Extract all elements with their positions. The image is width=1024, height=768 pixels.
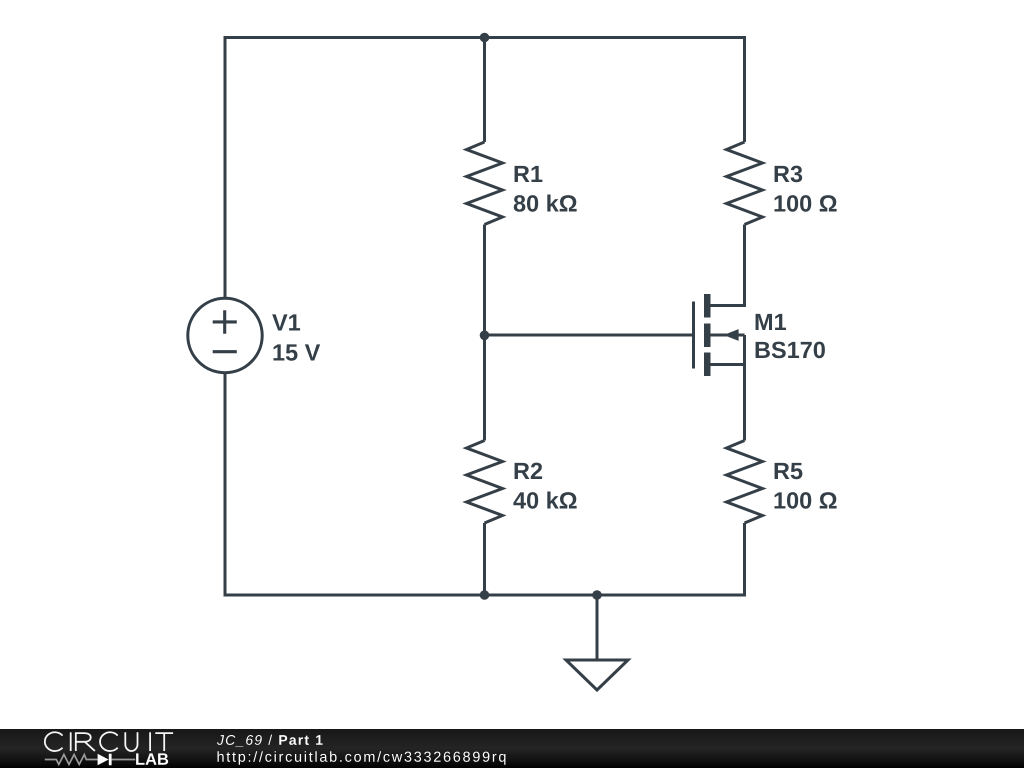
transistor M1 channel body segment bbox=[704, 324, 711, 348]
wire right lower (R5 to bottom rail) bbox=[743, 523, 746, 597]
logo letter U bbox=[125, 732, 137, 751]
footer title JC_69 bbox=[217, 735, 262, 746]
logo letter I bbox=[70, 732, 72, 751]
resistor R1 bbox=[467, 142, 503, 225]
label R5 name bbox=[775, 463, 803, 479]
ground stem bbox=[596, 595, 599, 660]
wire left lower (V1 minus to bottom rail) bbox=[224, 372, 227, 597]
label R1 value 80 kOhm bbox=[514, 194, 577, 211]
transistor M1 channel drain segment bbox=[704, 294, 711, 318]
logo letter T bbox=[155, 733, 173, 751]
label V1 name bbox=[272, 314, 300, 330]
voltage source V1 circle bbox=[188, 298, 262, 372]
logo letter R bbox=[76, 733, 95, 751]
logo letter I second bbox=[149, 732, 151, 751]
resistor R5 bbox=[727, 441, 763, 524]
logo letter C second bbox=[100, 732, 118, 751]
label V1 value 15 V bbox=[273, 344, 320, 360]
logo letter C bbox=[45, 732, 63, 751]
wire drain (R3 to M1 drain) bbox=[709, 225, 745, 306]
footer title slash bbox=[268, 735, 272, 745]
wire source (M1 body and source to R5) bbox=[710, 335, 745, 441]
wire gate (node to M1 gate) bbox=[485, 334, 694, 337]
ground triangle bbox=[566, 660, 628, 690]
node dot bottom rail ground bbox=[592, 590, 602, 600]
node dot bottom rail R2 bbox=[480, 590, 490, 600]
logo diode cathode bar bbox=[109, 754, 112, 766]
wire right upper (top rail to R3) bbox=[743, 36, 746, 142]
resistor R2 bbox=[467, 441, 503, 524]
label R5 value 100 Ohm bbox=[774, 492, 836, 509]
wire middle (R1 to R2 through gate node) bbox=[483, 225, 486, 441]
wire bottom rail bbox=[224, 594, 747, 597]
wire left upper (V1 plus to top rail) bbox=[224, 36, 227, 299]
V1 minus sign bbox=[213, 350, 237, 353]
label R2 value 40 kOhm bbox=[513, 491, 576, 508]
footer url bbox=[218, 751, 506, 765]
transistor M1 body arrow bbox=[724, 329, 739, 341]
V1 plus sign bbox=[213, 310, 237, 333]
transistor M1 gate bar bbox=[692, 302, 695, 369]
logo LAB text bbox=[136, 753, 168, 764]
wire middle lower (R2 to bottom rail) bbox=[483, 523, 486, 597]
logo diode triangle bbox=[98, 754, 109, 766]
resistor R3 bbox=[727, 142, 763, 225]
label R3 name bbox=[775, 166, 803, 183]
wire top rail bbox=[224, 36, 747, 39]
transistor M1 drain stub bbox=[710, 304, 745, 307]
node dot top rail R1 bbox=[480, 33, 490, 43]
logo diode lead-out bbox=[112, 759, 136, 761]
label M1 name bbox=[756, 314, 786, 330]
label R2 name bbox=[515, 463, 543, 479]
label M1 value BS170 bbox=[756, 342, 825, 359]
label R1 name bbox=[515, 166, 543, 182]
wire middle upper (top rail to R1) bbox=[483, 38, 486, 143]
transistor M1 channel source segment bbox=[704, 353, 711, 377]
node dot gate bbox=[480, 331, 490, 341]
label R3 value 100 Ohm bbox=[774, 195, 836, 212]
footer title Part 1 bbox=[279, 735, 322, 745]
footer bar bbox=[0, 729, 1024, 768]
logo resistor lead-in bbox=[45, 755, 98, 765]
transistor M1 body stub bbox=[710, 334, 745, 337]
